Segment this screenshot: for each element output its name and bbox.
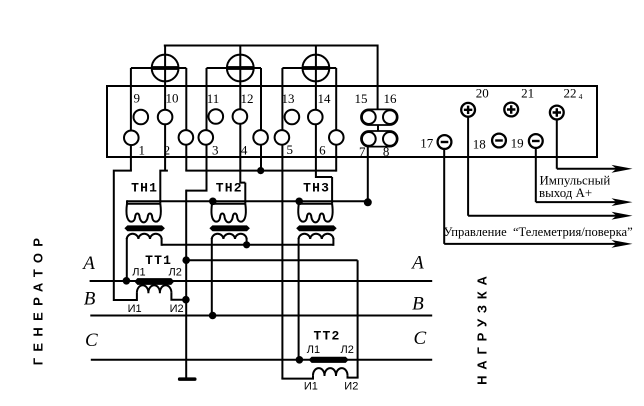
wire terminal 3 drop <box>206 68 208 191</box>
wire TT1 I2 lead <box>170 293 185 300</box>
terminal 15 <box>362 110 376 124</box>
ground symbol <box>178 377 197 381</box>
svg-text:12: 12 <box>241 91 254 106</box>
svg-text:21: 21 <box>521 86 534 101</box>
wire terminal 19 drop <box>536 148 618 202</box>
current transformer TT2 secondary winding <box>313 368 348 376</box>
svg-text:5: 5 <box>287 142 294 157</box>
transformer TN1 core <box>124 225 164 231</box>
wire TT2 I1 bottom run <box>281 375 313 379</box>
wire ground drop (3 to earth) <box>185 190 187 378</box>
svg-text:ТН1: ТН1 <box>131 181 158 196</box>
terminal 1 <box>124 131 139 146</box>
wire fuse F2 left lead <box>207 67 228 69</box>
transformer TN2 primary winding <box>211 204 245 223</box>
wire TN2 primary left lead <box>211 200 213 204</box>
transformer TN3 core <box>296 225 337 231</box>
wire jog 10 to TN1 primary <box>159 170 168 204</box>
arrowhead telemetry 19 <box>612 198 633 206</box>
terminal 7 <box>362 132 376 146</box>
svg-text:Л2: Л2 <box>169 267 182 279</box>
wire fuse F1 vertical <box>164 45 166 88</box>
wire TN1 secondary right lead <box>161 238 163 246</box>
svg-text:8: 8 <box>383 144 390 159</box>
svg-text:И1: И1 <box>128 303 142 315</box>
transformer TN2 core <box>209 225 250 231</box>
wire TN2 secondary left lead to phase B <box>211 238 213 316</box>
node phase A TN1 junction <box>123 277 131 285</box>
terminal 18 minus <box>492 134 506 148</box>
svg-text:10: 10 <box>166 91 179 106</box>
node H4 ground-wire junction <box>182 256 190 264</box>
svg-text:7: 7 <box>359 144 366 159</box>
wire TN3 secondary left lead to phase C <box>298 238 300 360</box>
wire terminal 10 drop <box>164 87 166 171</box>
terminal box <box>107 86 597 157</box>
arrowhead telemetry 20 <box>612 212 633 220</box>
wire fuse F3 vertical <box>315 45 317 88</box>
svg-text:20: 20 <box>476 86 489 101</box>
wire terminal 12 drop <box>239 87 241 184</box>
svg-text:ГЕНЕРАТОР: ГЕНЕРАТОР <box>31 232 46 365</box>
svg-text:Л1: Л1 <box>307 344 320 356</box>
svg-text:А: А <box>81 253 95 274</box>
svg-text:3: 3 <box>212 143 219 158</box>
svg-text:18: 18 <box>473 136 486 151</box>
terminal 12 <box>233 109 248 124</box>
terminal 16 <box>383 110 397 124</box>
terminal 6 <box>329 130 344 145</box>
arrowhead control 17 <box>612 240 633 248</box>
svg-text:ТН2: ТН2 <box>216 181 243 196</box>
wire top bus <box>164 45 378 47</box>
svg-text:16: 16 <box>384 91 398 106</box>
terminal 14 <box>308 110 323 125</box>
wire terminal 14 drop <box>315 87 317 178</box>
terminal 8 <box>383 132 397 146</box>
wire feed to link 15-16 <box>377 45 379 110</box>
transformer TN3 primary winding <box>298 204 332 223</box>
svg-text:22: 22 <box>564 86 577 101</box>
node H2 terminal7 junction <box>364 198 372 206</box>
terminal 21 plus <box>504 103 518 117</box>
svg-text:4: 4 <box>579 92 583 101</box>
terminal 17 minus <box>438 135 452 149</box>
link 15-16 stadium <box>361 109 398 125</box>
wire terminal 6 drop <box>335 68 337 172</box>
svg-text:И1: И1 <box>304 380 318 392</box>
wire TN2 secondary right lead <box>246 238 248 246</box>
svg-text:17: 17 <box>420 136 434 151</box>
transformer TN1 secondary winding <box>127 234 162 239</box>
wire fuse F2 right lead <box>253 67 261 69</box>
fuse F3 <box>303 55 330 82</box>
wire terminal 4 drop <box>260 68 262 170</box>
wire H3 secondary common <box>162 244 334 246</box>
wire phase line A <box>90 280 433 282</box>
svg-text:9: 9 <box>134 91 141 106</box>
svg-text:4: 4 <box>241 143 248 158</box>
label terminal numbers bottom row <box>139 142 390 159</box>
current transformer TT2 primary bar <box>309 357 349 363</box>
svg-text:И2: И2 <box>344 380 358 392</box>
wire phase line B <box>90 315 432 317</box>
svg-text:В: В <box>84 289 96 310</box>
svg-text:С: С <box>414 328 427 349</box>
node TN2 primary junction <box>209 198 217 206</box>
terminal 11 <box>209 109 224 124</box>
terminal 5 <box>275 130 290 145</box>
wire H1 voltage link 2-4-6 <box>185 170 336 172</box>
svg-text:6: 6 <box>319 143 326 158</box>
wire terminal 7 drop <box>367 147 369 203</box>
wire jog 14 to TN3 primary <box>316 177 332 204</box>
terminal 2 <box>179 130 194 145</box>
arrowhead pulse output <box>612 165 633 173</box>
wire fuse F3 left lead <box>282 67 302 69</box>
svg-text:15: 15 <box>355 91 368 106</box>
svg-text:13: 13 <box>282 91 295 106</box>
wire TT2 I2 bottom run <box>348 375 359 378</box>
wire TN3 primary left lead <box>298 200 300 204</box>
wire H2 primary neutral <box>127 200 368 202</box>
transformer TN2 secondary winding <box>212 234 247 239</box>
terminal 9 <box>134 110 149 125</box>
node H1-terminal4 junction <box>257 167 264 174</box>
wire terminal 17 drop <box>444 149 618 244</box>
transformer TN1 primary winding <box>126 204 160 223</box>
svg-text:Управление “Телеметрия/поверк: Управление “Телеметрия/поверка” <box>444 225 633 239</box>
wire fuse F1 left lead <box>131 67 152 69</box>
svg-text:ТН3: ТН3 <box>303 181 330 196</box>
fuse F1 <box>152 55 179 82</box>
wire terminal 22 drop <box>557 120 618 169</box>
svg-text:С: С <box>85 330 98 351</box>
svg-text:ТТ2: ТТ2 <box>313 329 340 344</box>
svg-text:НАГРУЗКА: НАГРУЗКА <box>475 270 490 385</box>
wire TN1 primary left lead <box>126 200 128 204</box>
svg-text:Л1: Л1 <box>132 267 145 279</box>
svg-text:11: 11 <box>207 91 220 106</box>
wire fuse F2 vertical <box>239 45 241 88</box>
transformer TN3 secondary winding <box>299 234 334 239</box>
wire fuse F3 right lead <box>329 67 336 69</box>
wire terminal 5 drop (to TT2 I1) <box>281 68 283 379</box>
terminal 20 plus <box>461 103 475 117</box>
terminal 3 <box>199 130 214 145</box>
terminal 13 <box>285 110 300 125</box>
svg-text:В: В <box>412 294 424 315</box>
wire node to TT1 I1 (left run) <box>114 171 137 301</box>
node phase C TN3 junction <box>296 356 304 364</box>
wire TN1 secondary left lead to phase A <box>126 238 128 281</box>
wire TN3 secondary right lead <box>332 238 334 246</box>
wire phase line C <box>91 359 432 361</box>
node TT1 I2 junction <box>182 296 190 304</box>
terminal 4 <box>253 130 268 145</box>
terminal 19 minus <box>529 134 543 148</box>
wire terminal 2 drop <box>185 68 187 171</box>
wire H4 I2 return <box>186 260 357 377</box>
svg-text:19: 19 <box>511 136 524 151</box>
svg-text:1: 1 <box>139 143 146 158</box>
terminal 10 <box>158 110 173 125</box>
node TN3 primary junction <box>295 198 303 206</box>
svg-text:выход А+: выход А+ <box>539 186 592 200</box>
wire terminal 20 drop <box>468 117 618 216</box>
label terminal numbers top row <box>134 91 397 107</box>
svg-text:А: А <box>410 253 424 274</box>
svg-text:2: 2 <box>164 143 171 158</box>
fuse F2 <box>227 55 254 82</box>
wire fuse F1 right lead <box>178 67 186 69</box>
wire jog 12 to TN2 primary <box>240 183 245 204</box>
svg-text:И2: И2 <box>170 303 184 315</box>
wire link between stadiums <box>377 125 379 131</box>
svg-text:Л2: Л2 <box>341 344 354 356</box>
wire jog 3 left <box>186 190 207 192</box>
current transformer TT1 secondary winding <box>137 285 172 293</box>
link 7-8 stadium <box>361 131 398 147</box>
terminal 22 plus <box>550 106 564 120</box>
label terminal numbers right group <box>420 86 582 152</box>
node H3 TN2 secondary junction <box>243 241 250 248</box>
wire terminal 1 drop <box>130 68 132 171</box>
node phase B TN2 junction <box>209 312 217 320</box>
current transformer TT1 primary bar <box>134 278 174 285</box>
svg-text:14: 14 <box>318 91 332 106</box>
